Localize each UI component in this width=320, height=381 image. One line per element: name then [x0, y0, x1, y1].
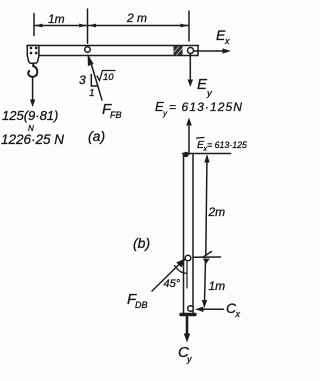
svg-text:y: y — [186, 354, 192, 364]
slope triangle vertical — [90, 75, 92, 87]
svg-text:1: 1 — [89, 88, 95, 99]
dimension tick left — [33, 14, 35, 36]
angle arc — [175, 266, 187, 274]
svg-text:FB: FB — [110, 110, 122, 120]
pin at D — [185, 255, 191, 261]
force FDB line — [152, 265, 179, 292]
beam right edge — [197, 46, 199, 56]
svg-text:1226·25 N: 1226·25 N — [1, 132, 64, 147]
svg-text:3: 3 — [79, 73, 86, 87]
dimension 1m line — [205, 259, 206, 303]
svg-text:(b): (b) — [133, 235, 150, 251]
junction line — [194, 256, 221, 258]
member right edge — [192, 154, 194, 315]
svg-text:125(9·81): 125(9·81) — [2, 108, 58, 123]
slope triangle horizontal — [91, 85, 97, 87]
pin at B — [85, 47, 91, 53]
force Cy arrow — [186, 317, 189, 334]
dimension tick right — [188, 11, 190, 41]
load arrow head — [30, 100, 35, 108]
svg-text:x: x — [224, 36, 230, 46]
svg-text:(a): (a) — [88, 128, 105, 144]
svg-text:10: 10 — [103, 72, 114, 83]
label Ex = 613.125 with overbar — [197, 137, 205, 140]
dimension tick middle — [87, 9, 89, 43]
svg-text:2m: 2m — [208, 205, 226, 219]
member top edge — [183, 153, 231, 155]
beam bottom edge — [40, 55, 198, 57]
svg-text:y: y — [162, 109, 168, 118]
member left edge — [183, 154, 185, 315]
load cable — [32, 78, 34, 101]
radical sign sqrt10 — [97, 71, 115, 81]
junction slash — [203, 252, 212, 258]
junction arrow blob — [203, 259, 210, 264]
force Cx arrow — [201, 308, 223, 310]
member bottom edge — [181, 313, 195, 316]
svg-text:DB: DB — [135, 300, 148, 310]
force Ex arrow — [194, 50, 224, 52]
pin at E — [188, 48, 194, 54]
svg-text:45°: 45° — [164, 278, 181, 290]
pin at C — [188, 306, 194, 312]
wall hatch block — [174, 46, 183, 55]
dimension 2m line — [206, 156, 207, 255]
pin dot top — [184, 152, 188, 156]
member reaction Ey arrow up — [188, 126, 190, 154]
force FFB line — [91, 63, 102, 101]
pulley block — [27, 46, 39, 64]
angle reference line — [186, 262, 188, 288]
svg-text:1m: 1m — [48, 12, 65, 26]
dimension line 1m — [35, 25, 87, 27]
svg-text:1m: 1m — [209, 279, 226, 293]
svg-text:= 613·125N: = 613·125N — [169, 100, 243, 114]
dimension line 2m — [89, 25, 189, 27]
force Ey arrow (beam) — [189, 54, 191, 80]
svg-text:x: x — [235, 309, 241, 319]
svg-text:= 613·125: = 613·125 — [207, 140, 247, 150]
beam top edge — [27, 45, 199, 47]
hook — [28, 63, 37, 77]
svg-text:2 m: 2 m — [126, 11, 147, 25]
force FFB arrow head — [88, 54, 94, 66]
svg-text:y: y — [206, 88, 213, 99]
pulley rivets — [30, 47, 38, 54]
force FDB arrow head — [176, 258, 186, 267]
